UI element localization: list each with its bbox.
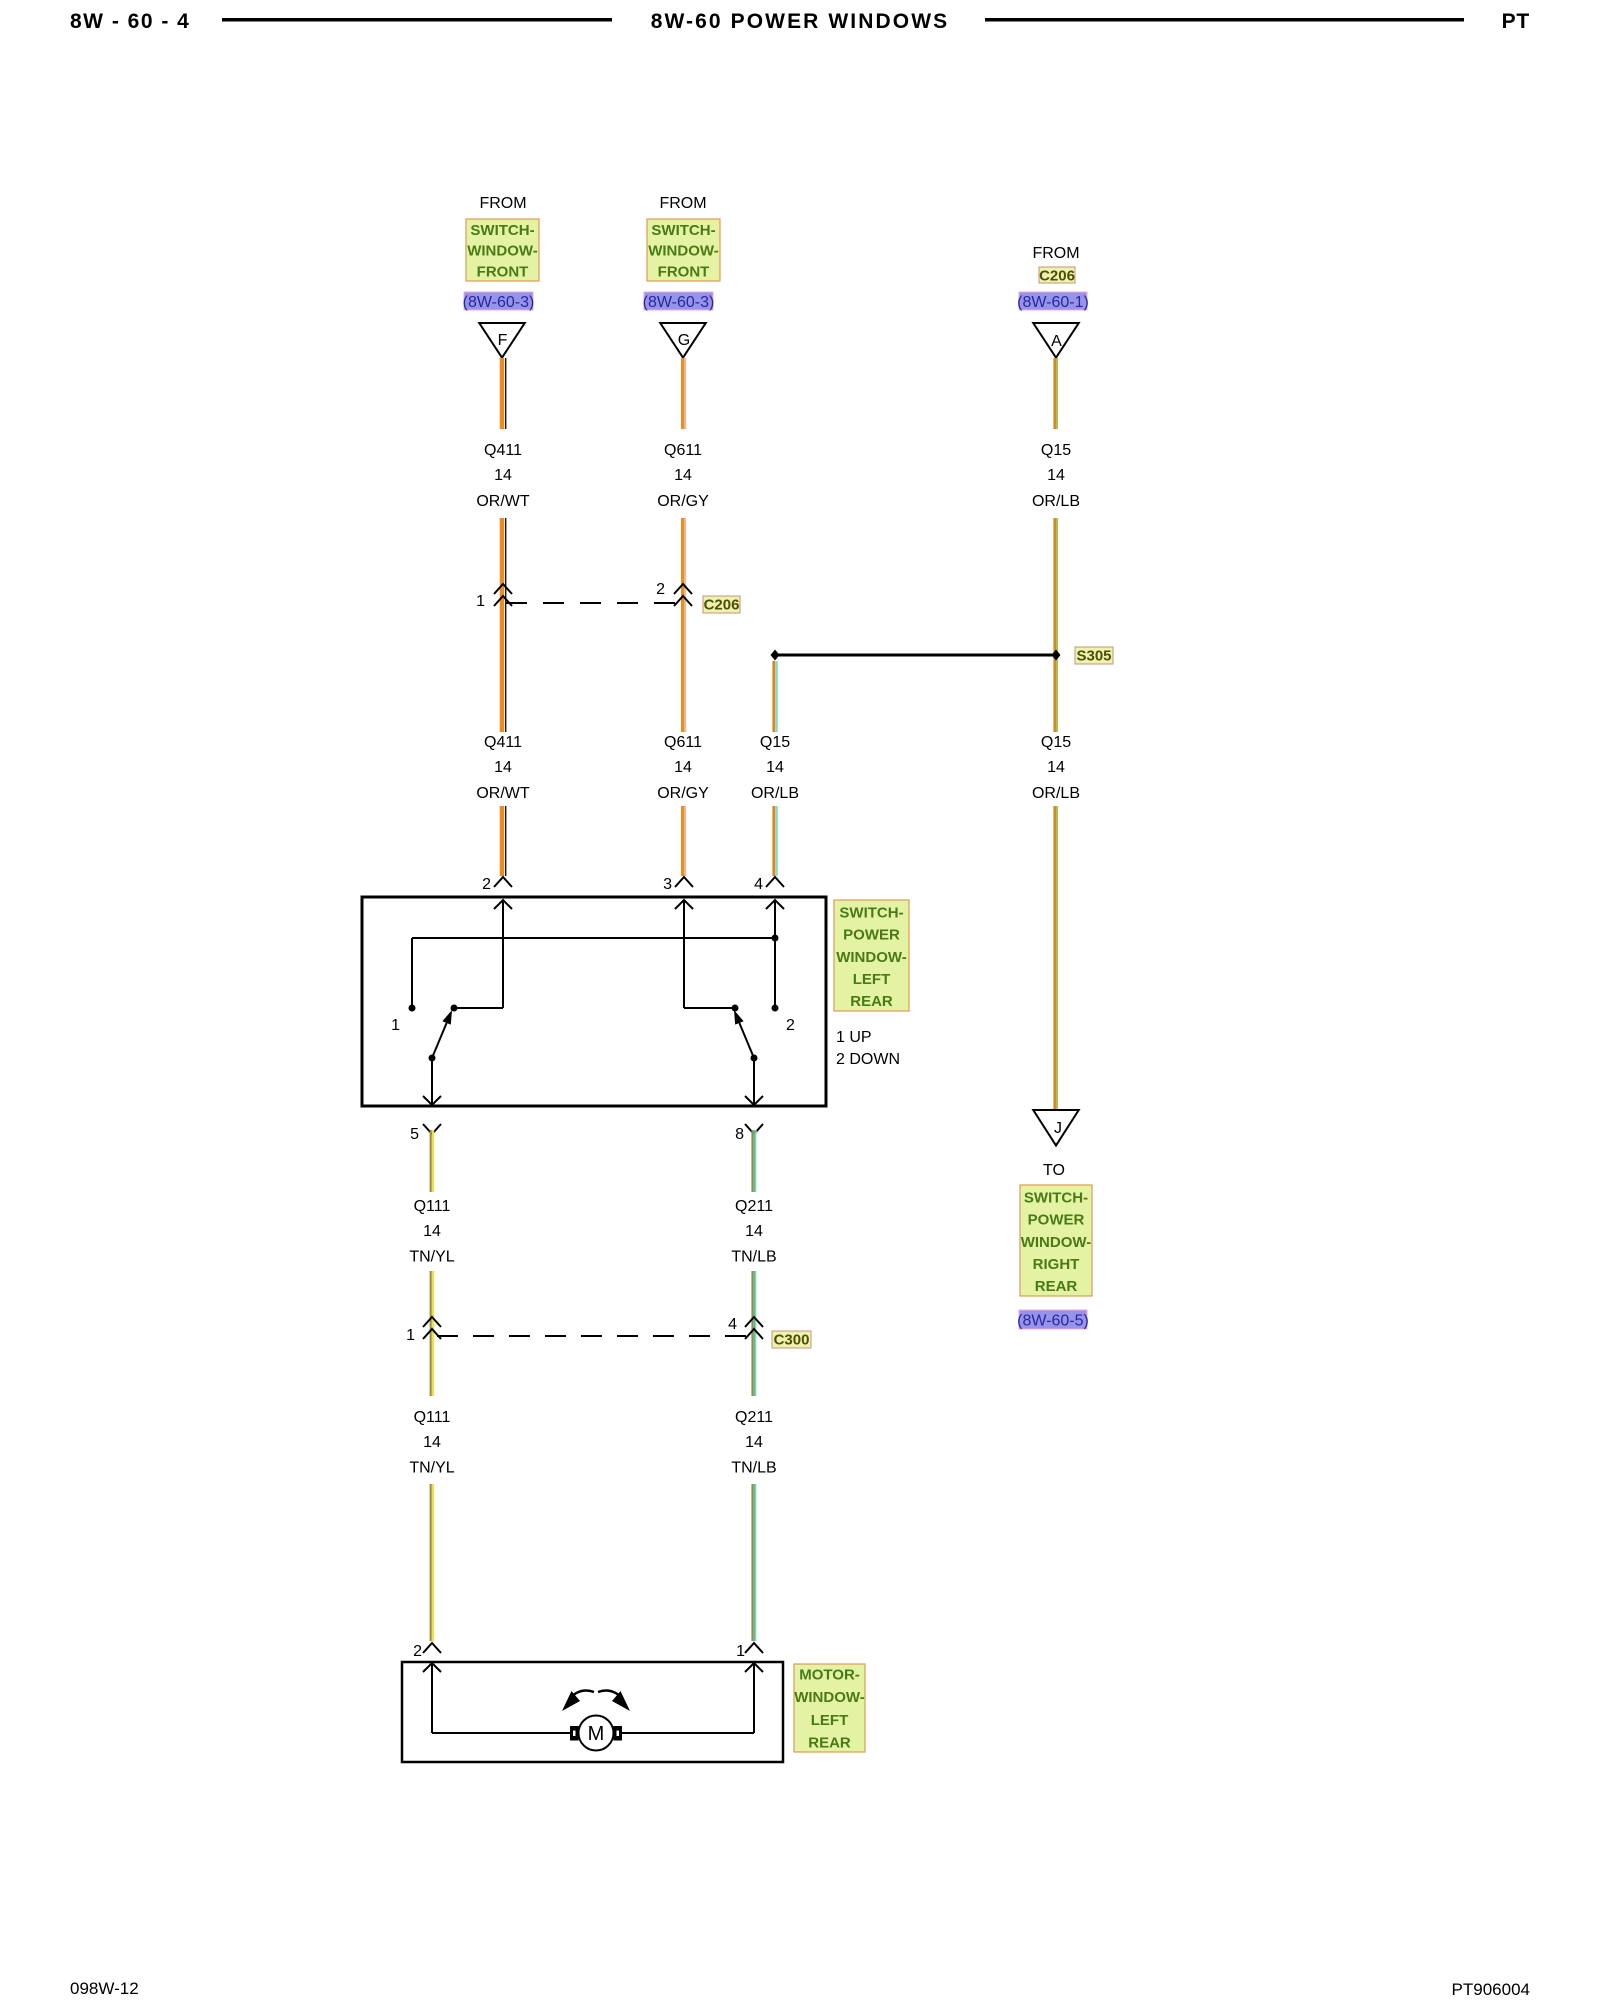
svg-text:REAR: REAR <box>850 993 893 1010</box>
page ref (8W-60-3) (col G) <box>644 292 713 310</box>
splice S305 node left <box>771 650 780 661</box>
connector C206 label <box>703 596 740 613</box>
svg-text:POWER: POWER <box>843 927 900 944</box>
svg-text:1: 1 <box>736 1643 745 1660</box>
wire Q15 OR/LB branch seg2 <box>772 806 775 876</box>
switch pin 4 internal arrow <box>766 900 784 909</box>
svg-text:098W-12: 098W-12 <box>70 1979 139 1998</box>
svg-text:REAR: REAR <box>808 1734 851 1751</box>
motor brush right <box>614 1726 623 1741</box>
svg-text:14: 14 <box>1047 759 1065 776</box>
off-page connector F <box>479 323 525 358</box>
motor pin 1 internal arrow <box>745 1663 763 1672</box>
svg-text:WINDOW-: WINDOW- <box>648 243 719 260</box>
wire Q15 OR/LB right seg3 <box>1053 806 1056 1109</box>
svg-text:Q15: Q15 <box>760 734 790 751</box>
svg-text:4: 4 <box>754 876 763 893</box>
svg-text:OR/LB: OR/LB <box>751 785 799 802</box>
wire Q411 OR/WT seg1 <box>500 358 505 429</box>
svg-text:G: G <box>678 332 690 349</box>
wire Q15 OR/LB right seg2 <box>1053 518 1056 732</box>
svg-text:5: 5 <box>410 1126 419 1143</box>
svg-text:(8W-60-3): (8W-60-3) <box>643 294 715 311</box>
svg-text:FRONT: FRONT <box>658 263 710 280</box>
svg-text:2 DOWN: 2 DOWN <box>836 1051 900 1068</box>
svg-text:MOTOR-: MOTOR- <box>799 1667 860 1684</box>
switch wire pin2 to wiper contact <box>454 1007 503 1009</box>
svg-text:Q411: Q411 <box>484 442 522 459</box>
wire Q611 OR/GY seg1 <box>681 358 685 429</box>
svg-text:PT906004: PT906004 <box>1452 1980 1530 1999</box>
svg-text:14: 14 <box>423 1223 441 1240</box>
switch pin 3 terminal <box>675 877 693 887</box>
svg-text:M: M <box>588 1723 605 1745</box>
svg-text:Q15: Q15 <box>1041 734 1071 751</box>
svg-text:TO: TO <box>1043 1162 1065 1179</box>
wire Q211 TN/LB seg1 <box>751 1130 753 1192</box>
switch wiper contact dot (left) <box>451 1005 458 1012</box>
wire Q15 OR/LB right seg1 <box>1053 358 1056 429</box>
switch node pin 4 dot <box>772 1005 779 1012</box>
switch wiper contact dot (right) <box>732 1005 739 1012</box>
svg-text:14: 14 <box>423 1434 441 1451</box>
svg-text:S305: S305 <box>1076 648 1111 665</box>
switch pin 2 internal arrow <box>494 900 512 909</box>
switch wiper (left) <box>432 1023 447 1058</box>
switch wiper pivot dot (left) <box>429 1055 436 1062</box>
svg-text:F: F <box>498 332 508 349</box>
svg-text:14: 14 <box>745 1223 763 1240</box>
motor brush left <box>570 1726 579 1741</box>
svg-text:14: 14 <box>674 467 692 484</box>
svg-text:WINDOW-: WINDOW- <box>1021 1234 1092 1251</box>
svg-text:Q211: Q211 <box>735 1409 773 1426</box>
svg-text:SWITCH-: SWITCH- <box>1024 1189 1088 1206</box>
svg-text:Q411: Q411 <box>484 734 522 751</box>
svg-text:14: 14 <box>1047 467 1065 484</box>
switch wire pin3 to wiper contact <box>684 1007 735 1009</box>
svg-text:J: J <box>1054 1120 1062 1137</box>
motor pin 2 internal arrow <box>423 1663 441 1672</box>
svg-text:OR/WT: OR/WT <box>476 785 530 802</box>
svg-text:REAR: REAR <box>1035 1278 1078 1295</box>
svg-text:1: 1 <box>391 1017 400 1034</box>
splice S305 node right <box>1052 650 1061 661</box>
svg-text:8: 8 <box>735 1126 744 1143</box>
svg-text:OR/LB: OR/LB <box>1032 785 1080 802</box>
connector C300 dashed link <box>437 1335 749 1337</box>
header rule right <box>985 18 1464 22</box>
component ref SWITCH-POWER WINDOW-RIGHT REAR <box>1020 1185 1092 1296</box>
connector C206 dashed link <box>506 602 680 604</box>
wire Q111 TN/YL seg2 <box>430 1271 432 1396</box>
switch pin 5 terminal <box>423 1124 441 1134</box>
svg-text:14: 14 <box>494 759 512 776</box>
component ref SWITCH-WINDOW-FRONT (col F) <box>466 219 539 281</box>
motor feed wire left <box>432 1732 571 1734</box>
svg-text:(8W-60-3): (8W-60-3) <box>463 294 535 311</box>
switch label box <box>834 900 909 1011</box>
svg-text:8W - 60 - 4: 8W - 60 - 4 <box>70 10 190 33</box>
svg-text:TN/YL: TN/YL <box>409 1460 454 1477</box>
motor pin 1 terminal <box>745 1643 763 1653</box>
motor rotation arrow left <box>569 1691 594 1699</box>
svg-text:FRONT: FRONT <box>477 263 529 280</box>
switch pin 5 internal arrow <box>423 1096 441 1105</box>
svg-text:1: 1 <box>406 1327 415 1344</box>
svg-text:OR/LB: OR/LB <box>1032 493 1080 510</box>
svg-text:OR/GY: OR/GY <box>657 493 709 510</box>
connector C206 pin 1 terminal <box>494 584 512 594</box>
motor rotation arrow right <box>598 1691 623 1699</box>
wire Q611 OR/GY seg2 <box>681 518 685 732</box>
wire Q411 OR/WT seg3 <box>500 806 505 876</box>
svg-text:TN/LB: TN/LB <box>731 1460 776 1477</box>
svg-text:14: 14 <box>745 1434 763 1451</box>
switch pin 8 drop <box>753 1058 755 1104</box>
svg-text:SWITCH-: SWITCH- <box>839 904 903 921</box>
svg-text:Q15: Q15 <box>1041 442 1071 459</box>
switch internal bus (pin1 to pin4) <box>412 937 775 939</box>
svg-text:WINDOW-: WINDOW- <box>794 1689 865 1706</box>
svg-text:SWITCH-: SWITCH- <box>651 222 715 239</box>
svg-text:SWITCH-: SWITCH- <box>470 222 534 239</box>
svg-text:1 UP: 1 UP <box>836 1029 872 1046</box>
svg-text:4: 4 <box>728 1316 737 1333</box>
svg-text:2: 2 <box>786 1017 795 1034</box>
wire Q611 OR/GY seg3 <box>681 806 685 876</box>
connector C300 pin 4 terminal <box>745 1317 763 1327</box>
page ref (8W-60-5) <box>1019 1310 1087 1329</box>
page ref (8W-60-1) (col A) <box>1019 292 1087 310</box>
switch node bus junction dot <box>772 935 779 942</box>
svg-text:OR/GY: OR/GY <box>657 785 709 802</box>
motor M1 body <box>579 1716 614 1751</box>
svg-text:2: 2 <box>482 876 491 893</box>
page ref (8W-60-3) (col F) <box>464 292 533 310</box>
svg-text:Q211: Q211 <box>735 1198 773 1215</box>
svg-text:FROM: FROM <box>659 195 706 212</box>
switch pin 8 terminal <box>745 1124 763 1134</box>
svg-text:TN/YL: TN/YL <box>409 1249 454 1266</box>
switch SWITCH-POWER WINDOW-LEFT REAR box <box>362 897 826 1106</box>
wire Q211 TN/LB seg3 <box>751 1484 753 1641</box>
splice S305 bus <box>775 654 1056 657</box>
svg-text:PT: PT <box>1502 10 1530 33</box>
connector C300 label <box>772 1331 811 1348</box>
svg-text:2: 2 <box>413 1643 422 1660</box>
svg-text:C206: C206 <box>704 597 740 614</box>
wire Q111 TN/YL seg3 <box>430 1484 432 1641</box>
component ref SWITCH-WINDOW-FRONT (col G) <box>647 219 720 281</box>
svg-text:C300: C300 <box>774 1332 810 1349</box>
switch node pin 1 dot <box>409 1005 416 1012</box>
switch pin 3 internal arrow <box>675 900 693 909</box>
svg-text:Q611: Q611 <box>664 734 702 751</box>
switch pin 2 terminal <box>494 877 512 887</box>
connector C206 pin 2 terminal <box>674 584 692 594</box>
wire Q15 OR/LB branch seg1 <box>772 661 775 732</box>
svg-text:RIGHT: RIGHT <box>1033 1256 1080 1273</box>
off-page connector G <box>660 323 706 358</box>
switch pin 1 riser <box>411 938 413 1008</box>
connector C300 pin 1 terminal <box>423 1317 441 1327</box>
svg-text:Q111: Q111 <box>414 1198 451 1215</box>
svg-text:POWER: POWER <box>1028 1212 1085 1229</box>
connector ref C206 (col A) <box>1039 267 1075 283</box>
header rule left <box>222 18 612 22</box>
svg-text:(8W-60-5): (8W-60-5) <box>1017 1313 1089 1330</box>
svg-text:LEFT: LEFT <box>811 1712 849 1729</box>
svg-text:14: 14 <box>766 759 784 776</box>
svg-text:Q111: Q111 <box>414 1409 451 1426</box>
switch pin 4 terminal <box>766 877 784 887</box>
off-page connector A <box>1033 323 1079 358</box>
svg-text:(8W-60-1): (8W-60-1) <box>1017 294 1089 311</box>
svg-text:LEFT: LEFT <box>853 971 891 988</box>
switch wiper pivot dot (right) <box>751 1055 758 1062</box>
motor MOTOR-WINDOW-LEFT REAR box <box>402 1662 783 1762</box>
svg-text:2: 2 <box>656 581 665 598</box>
splice S305 label <box>1075 647 1113 664</box>
wire Q411 OR/WT seg2 <box>500 518 505 732</box>
wire Q211 TN/LB seg2 <box>751 1271 753 1396</box>
motor feed wire right <box>621 1732 754 1734</box>
motor pin 2 terminal <box>423 1643 441 1653</box>
svg-text:WINDOW-: WINDOW- <box>836 949 907 966</box>
off-page connector J <box>1033 1110 1079 1146</box>
svg-text:3: 3 <box>663 876 672 893</box>
switch wiper (right) <box>739 1023 754 1058</box>
motor label box <box>794 1664 865 1752</box>
svg-text:TN/LB: TN/LB <box>731 1249 776 1266</box>
svg-text:1: 1 <box>476 593 485 610</box>
svg-text:WINDOW-: WINDOW- <box>467 243 538 260</box>
switch pin 5 drop <box>431 1058 433 1104</box>
svg-text:Q611: Q611 <box>664 442 702 459</box>
switch pin 8 internal arrow <box>745 1096 763 1105</box>
svg-text:A: A <box>1051 333 1062 350</box>
svg-text:FROM: FROM <box>1032 245 1079 262</box>
svg-text:C206: C206 <box>1039 268 1075 285</box>
svg-text:14: 14 <box>494 467 512 484</box>
svg-text:FROM: FROM <box>479 195 526 212</box>
svg-text:8W-60 POWER WINDOWS: 8W-60 POWER WINDOWS <box>651 10 949 33</box>
svg-text:OR/WT: OR/WT <box>476 493 530 510</box>
svg-text:14: 14 <box>674 759 692 776</box>
wire Q111 TN/YL seg1 <box>430 1130 432 1192</box>
